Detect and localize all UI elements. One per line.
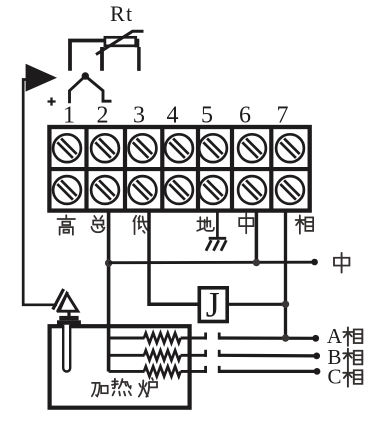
- junction dot neutral-mid: [253, 259, 260, 266]
- wire terminal5 to ground: [216, 212, 219, 238]
- heater element A zigzag: [144, 333, 181, 343]
- wire Rt left loop: [70, 41, 104, 71]
- terminal block mid divider: [49, 167, 310, 171]
- junction dot phase A: [282, 334, 289, 341]
- wire neutral line: [109, 261, 315, 264]
- svg-text:2: 2: [97, 102, 109, 128]
- contact tick left A: [204, 333, 207, 340]
- furnace box: [50, 326, 190, 408]
- svg-text:J: J: [206, 285, 220, 325]
- wire terminal6 to neutral: [255, 212, 259, 263]
- terminal screw 5 top: [199, 134, 227, 162]
- svg-text:7: 7: [277, 102, 289, 128]
- phase line B: [219, 354, 317, 358]
- arrow plug symbol: [26, 64, 57, 92]
- wire thermocouple left run: [23, 80, 57, 305]
- svg-text:6: 6: [239, 102, 251, 128]
- wire relay J output: [227, 303, 286, 306]
- terminal screw 1 top: [53, 134, 81, 162]
- contact tick right A: [218, 333, 221, 340]
- polarity plus sign: [48, 98, 56, 106]
- contact tick right C: [218, 366, 221, 373]
- ground symbol: [206, 238, 226, 251]
- relay J box: [199, 288, 227, 322]
- label di (low): [133, 216, 149, 234]
- terminal block divider 1: [84, 127, 88, 211]
- heater element B zigzag: [144, 350, 181, 360]
- heater element A lead-out: [181, 337, 206, 340]
- thermocouple probe: [63, 325, 70, 372]
- neutral end dot: [311, 259, 318, 266]
- terminal block outline: [49, 127, 309, 211]
- terminal screw 4 bottom: [165, 176, 193, 204]
- wire to terminal 2: [85, 76, 111, 101]
- terminal screw 6 bottom: [238, 176, 266, 204]
- wire terminal2 to heater bus: [107, 212, 111, 372]
- label gao (high): [57, 215, 75, 235]
- thermistor diagonal stroke: [96, 31, 144, 54]
- terminal block divider 2: [123, 127, 127, 211]
- heater element C lead-out: [181, 370, 206, 373]
- terminal screw 7 top: [276, 134, 304, 162]
- thermocouple head: [53, 289, 81, 325]
- phase line A: [219, 336, 316, 339]
- junction dot relay output: [282, 301, 289, 308]
- terminal screw 5 bottom: [199, 176, 227, 204]
- svg-text:C: C: [327, 365, 341, 389]
- contact tick right B: [218, 350, 221, 357]
- wire Rt center stub: [100, 47, 104, 71]
- label zhong right: [334, 253, 349, 273]
- svg-text:1: 1: [63, 102, 75, 128]
- label lu (furnace): [139, 378, 157, 397]
- svg-text:3: 3: [133, 102, 145, 128]
- heater element A lead-in: [109, 337, 145, 340]
- junction dot neutral-left: [105, 259, 112, 266]
- wire to terminal 1: [70, 76, 86, 103]
- heater element B lead-in: [109, 354, 145, 357]
- phase end dot A: [312, 335, 319, 342]
- node junction dot: [82, 72, 89, 79]
- svg-text:4: 4: [167, 102, 179, 128]
- phase end dot C: [314, 368, 321, 375]
- contact tick left B: [204, 350, 207, 357]
- terminal screw 7 bottom: [276, 176, 304, 204]
- svg-text:5: 5: [201, 102, 213, 128]
- phase end dot B: [313, 353, 320, 360]
- svg-text:t: t: [126, 1, 132, 26]
- terminal screw 3 top: [129, 134, 157, 162]
- terminal screw 3 bottom: [129, 176, 157, 204]
- terminal screw 4 top: [165, 134, 193, 162]
- terminal block divider 6: [269, 127, 273, 211]
- terminal block divider 5: [230, 127, 234, 211]
- svg-text:R: R: [110, 1, 125, 26]
- wire Rt right lead: [137, 47, 141, 71]
- heater element C zigzag: [144, 366, 181, 376]
- phase line C: [219, 370, 317, 373]
- label jia (add): [92, 383, 108, 396]
- terminal screw 2 top: [91, 134, 119, 162]
- terminal block divider 3: [160, 127, 164, 211]
- label zhong (neutral): [239, 213, 253, 233]
- wire terminal7 phase drop: [284, 212, 287, 338]
- wire terminal3 to relay J: [149, 212, 199, 304]
- heater element C lead-in: [109, 370, 145, 373]
- heater element B lead-out: [181, 354, 206, 357]
- label di (earth): [197, 217, 214, 231]
- label xiang (phase): [296, 215, 314, 233]
- terminal screw 2 bottom: [91, 176, 119, 204]
- contact tick left C: [204, 366, 207, 373]
- terminal screw 6 top: [238, 134, 266, 162]
- terminal block divider 4: [196, 127, 200, 211]
- label re (heat): [112, 379, 131, 396]
- resistor Rt body: [105, 37, 136, 46]
- label zong (common): [91, 216, 104, 232]
- terminal screw 1 bottom: [53, 176, 81, 204]
